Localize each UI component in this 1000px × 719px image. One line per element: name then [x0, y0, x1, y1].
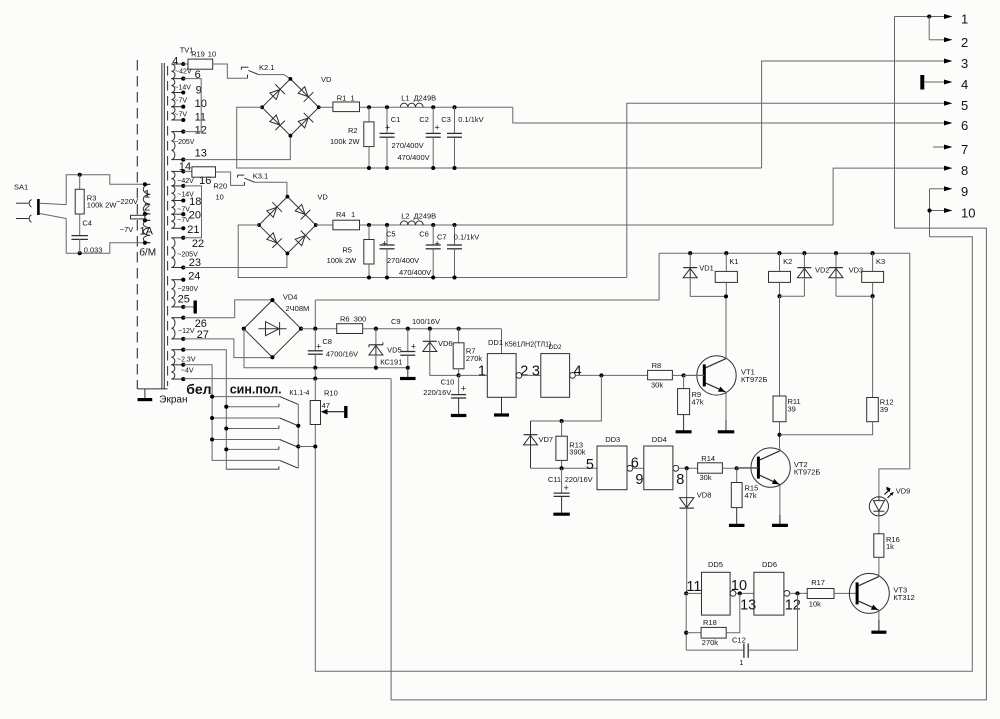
svg-text:КТ972Б: КТ972Б	[794, 467, 820, 476]
wire VD6 to DD1 input	[430, 352, 459, 376]
svg-text:K3.1: K3.1	[253, 171, 268, 180]
svg-text:K1: K1	[729, 257, 738, 266]
diode VD7	[530, 421, 532, 435]
svg-text:100k 2W: 100k 2W	[330, 137, 361, 146]
svg-text:C10: C10	[441, 378, 455, 387]
svg-text:Д249В: Д249В	[414, 211, 437, 220]
resistor R6	[337, 324, 363, 334]
inverter DD6	[754, 572, 784, 615]
chassis bar pin25	[193, 301, 196, 314]
svg-text:9: 9	[635, 472, 643, 488]
svg-text:11: 11	[195, 111, 206, 123]
output bus	[391, 17, 986, 700]
inverter DD3	[597, 446, 627, 490]
wire R17 to VT3 base	[834, 592, 857, 594]
DD6 output bubble	[784, 591, 790, 597]
wire to VD5	[375, 329, 377, 345]
svg-text:R17: R17	[811, 578, 825, 587]
terminal arrow 7	[944, 145, 953, 150]
secondary windings	[171, 64, 175, 79]
wire R16 to VT3 collector	[878, 557, 880, 576]
node K1/VT1	[724, 294, 728, 298]
DD3 output bubble	[627, 465, 633, 471]
wire to output 6	[513, 107, 947, 123]
svg-text:R19: R19	[191, 49, 205, 58]
svg-text:25: 25	[178, 294, 190, 306]
wire K2-VD2	[780, 295, 805, 297]
svg-text:9: 9	[961, 184, 968, 199]
dashed shield line	[136, 60, 138, 389]
svg-text:DD6: DD6	[762, 560, 777, 569]
wire bridge1 to R1	[319, 106, 333, 108]
svg-text:10k: 10k	[809, 599, 821, 608]
DD2 output bubble	[570, 373, 576, 379]
wire VD9 to R16	[878, 516, 880, 534]
svg-text:~7V: ~7V	[177, 217, 190, 224]
wire bridge2 to R4	[316, 224, 333, 226]
svg-text:К561ЛН2(ТЛ1): К561ЛН2(ТЛ1)	[505, 342, 552, 349]
capacitor C3	[447, 132, 462, 134]
svg-text:R14: R14	[701, 454, 715, 463]
wire minus1 to output 3	[762, 61, 947, 168]
ground R15	[736, 508, 738, 526]
wire DD5 to DD6	[736, 592, 754, 594]
wire VD1 to K1 bottom	[690, 278, 726, 297]
node C12	[795, 591, 799, 595]
node C4 bottom	[78, 251, 82, 255]
node R18 feedback	[738, 591, 742, 595]
wire pin27 to VD4 bottom	[183, 339, 272, 358]
svg-text:VD: VD	[317, 193, 328, 202]
svg-text:K2.1: K2.1	[259, 63, 274, 72]
svg-text:R18: R18	[703, 618, 717, 627]
svg-text:11: 11	[686, 579, 701, 595]
svg-text:VD2: VD2	[815, 266, 830, 275]
svg-text:C12: C12	[732, 635, 746, 644]
svg-text:+: +	[411, 341, 416, 351]
svg-text:син.пол.: син.пол.	[230, 382, 282, 396]
svg-text:10: 10	[216, 193, 224, 202]
jumper pins 2-1A	[144, 214, 146, 220]
node C7	[452, 223, 456, 227]
wire R20 to K3.1	[216, 172, 245, 185]
terminal arrow 6	[944, 121, 953, 126]
wire to R10	[314, 379, 316, 401]
svg-text:0.1/1kV: 0.1/1kV	[454, 233, 479, 242]
wire to terminal 10	[930, 210, 945, 212]
wire DD6 to R17	[790, 592, 808, 594]
svg-text:C5: C5	[386, 229, 396, 238]
svg-text:5: 5	[961, 98, 968, 113]
svg-text:4700/16V: 4700/16V	[326, 350, 358, 359]
wire VD4 plus to relay rail	[315, 253, 659, 300]
terminal arrow 10	[944, 208, 953, 213]
svg-text:+: +	[385, 123, 390, 133]
chassis bar terminal 4	[920, 75, 924, 90]
wire pin23 to bridge2	[183, 253, 287, 268]
relay contact K2.1	[247, 75, 249, 79]
switch throw contact	[226, 468, 279, 470]
svg-text:R8: R8	[652, 361, 662, 370]
svg-text:21: 21	[187, 224, 199, 236]
common rail	[183, 378, 391, 380]
ground R9	[683, 415, 685, 432]
svg-text:VD: VD	[321, 75, 332, 84]
capacitor C4	[71, 235, 88, 237]
wire to output 8	[833, 168, 947, 225]
capacitor C11	[554, 492, 570, 494]
capacitor C2	[426, 132, 441, 134]
svg-text:270/400V: 270/400V	[392, 141, 424, 150]
wire VT3 emitter	[878, 610, 880, 632]
diode VD3	[835, 253, 837, 267]
svg-text:1: 1	[144, 189, 150, 201]
node terminals 1-2	[927, 14, 931, 18]
wire to terminal 4	[925, 81, 944, 83]
wire DD2 output to R8	[575, 374, 647, 376]
wire plug top to riser	[40, 203, 66, 204]
ground C10	[458, 398, 460, 416]
svg-text:10: 10	[208, 49, 216, 58]
svg-text:2Ч08М: 2Ч08М	[286, 304, 310, 313]
svg-text:DD3: DD3	[605, 435, 620, 444]
9/10 loop to R10	[929, 189, 931, 237]
relay coil K1	[715, 271, 737, 282]
relay K2	[779, 253, 781, 271]
capacitor C5	[380, 244, 395, 246]
relay coil K3	[862, 271, 884, 282]
svg-text:5: 5	[586, 457, 594, 473]
svg-text:39: 39	[880, 405, 888, 414]
node C2	[431, 105, 435, 109]
capacitor C9	[400, 351, 415, 353]
long wire terminals 9-10 to R10	[315, 237, 972, 672]
node VD8	[685, 466, 689, 470]
inductor L1	[400, 103, 423, 107]
wire to DD5	[686, 592, 701, 594]
node VT1 base	[682, 373, 686, 377]
svg-text:~4V: ~4V	[181, 368, 194, 375]
switch arm K1.1	[212, 396, 280, 398]
resistor R9	[678, 389, 690, 415]
svg-text:C1: C1	[391, 115, 401, 124]
svg-text:8: 8	[961, 163, 968, 178]
relay K3	[872, 253, 874, 271]
ground VT2	[779, 515, 781, 525]
wire R18 to DD5 output	[726, 593, 740, 632]
terminal arrow 1	[944, 14, 953, 19]
svg-text:VD8: VD8	[697, 491, 712, 500]
wire C12 to DD6 output	[748, 593, 797, 650]
resistor R4	[333, 220, 360, 230]
node R18	[684, 631, 688, 635]
svg-text:47k: 47k	[692, 398, 704, 407]
svg-text:470/400V: 470/400V	[399, 268, 431, 277]
node terminals 9-10	[927, 208, 931, 212]
svg-text:16: 16	[199, 175, 211, 187]
inductor L2	[400, 221, 423, 225]
wire switch bus to R10 line	[298, 446, 315, 448]
ground common rail	[407, 368, 409, 379]
plus rail supply1	[360, 106, 513, 108]
ground VT1	[725, 420, 727, 432]
svg-text:+: +	[461, 384, 466, 394]
svg-text:VD9: VD9	[896, 486, 911, 495]
capacitor C7	[447, 244, 462, 246]
wire VT1 collector to K1	[725, 296, 727, 358]
svg-text:DD5: DD5	[708, 560, 723, 569]
wire pin13 to bridge1	[183, 136, 290, 160]
relay supply rail	[659, 252, 910, 254]
resistor R7	[453, 343, 464, 369]
wire to terminal 7	[933, 146, 944, 148]
wire to C11	[561, 468, 563, 493]
wire pin25	[183, 306, 193, 308]
svg-text:20: 20	[189, 210, 201, 222]
node R2 top	[367, 105, 371, 109]
wire VT2 emitter	[779, 485, 781, 526]
wire DD3 to DD4	[633, 467, 644, 469]
svg-text:270k: 270k	[466, 354, 483, 363]
transformer TV1 core	[161, 63, 163, 389]
wire feedback to VD7/R13	[531, 375, 602, 421]
wire VD3-K3	[836, 295, 873, 297]
wire to R3	[79, 175, 81, 190]
svg-text:+: +	[435, 123, 440, 133]
svg-text:3: 3	[532, 363, 540, 379]
common rail under C8	[315, 367, 408, 369]
svg-text:270/400V: 270/400V	[387, 256, 419, 265]
DD1 output bubble	[516, 373, 522, 379]
resistor R15	[731, 483, 742, 508]
svg-text:1: 1	[961, 12, 968, 27]
svg-text:бел: бел	[186, 381, 211, 397]
svg-text:13: 13	[195, 148, 207, 160]
wire VD4 minus to common	[244, 329, 315, 368]
plus rail supply2 to output8 riser	[360, 224, 834, 226]
resistor R5	[364, 240, 374, 265]
svg-text:~2.3V: ~2.3V	[177, 356, 196, 363]
ground C11	[561, 496, 563, 514]
wire to C8	[314, 329, 316, 351]
svg-text:~7V: ~7V	[174, 112, 187, 119]
svg-text:270k: 270k	[702, 638, 719, 647]
wire VD8 to DD5 input	[686, 508, 688, 593]
svg-text:1: 1	[351, 93, 355, 102]
terminal arrow 2	[944, 37, 953, 42]
VD9 emission arrows	[885, 490, 890, 495]
wire to C10	[458, 375, 460, 394]
transistor VT1	[697, 356, 736, 395]
capacitor C12	[686, 649, 744, 651]
jumper bar	[131, 215, 145, 219]
switch throw contact	[226, 406, 279, 408]
diode VD2	[803, 253, 805, 267]
switch throw contact	[226, 428, 279, 430]
bridge rectifier VD (lower)	[259, 197, 287, 225]
svg-text:~7V: ~7V	[177, 206, 190, 213]
primary winding 1-2	[143, 184, 150, 214]
svg-text:~7V: ~7V	[174, 98, 187, 105]
terminal arrow 3	[944, 59, 953, 64]
wire mains bottom to pin b/M	[66, 219, 145, 254]
capacitor C10	[451, 394, 466, 396]
svg-text:47: 47	[322, 401, 330, 410]
switch blade	[280, 397, 299, 405]
svg-text:~205V: ~205V	[177, 252, 198, 259]
svg-text:КС191: КС191	[380, 358, 402, 367]
svg-text:100k 2W: 100k 2W	[87, 200, 118, 209]
svg-text:~42V: ~42V	[177, 178, 194, 185]
resistor R8	[648, 370, 673, 379]
capacitor C6	[426, 244, 441, 246]
resistor R3	[75, 189, 84, 214]
resistor R16	[874, 534, 884, 558]
svg-text:б/М: б/М	[139, 246, 156, 258]
svg-text:6: 6	[195, 69, 201, 81]
svg-text:4: 4	[172, 55, 178, 67]
svg-text:DD1: DD1	[488, 338, 503, 347]
terminal arrow 4	[944, 80, 953, 85]
resistor R19	[188, 59, 213, 69]
svg-text:~205V: ~205V	[174, 139, 195, 146]
switch arm K1.3	[212, 439, 280, 441]
wire DD1 to DD2	[522, 374, 541, 376]
svg-text:0.033: 0.033	[84, 246, 103, 255]
wire to R13	[561, 421, 563, 436]
primary winding 1A-b/M	[143, 220, 150, 243]
node VT2 collector	[777, 433, 781, 437]
svg-text:~12V: ~12V	[178, 328, 195, 335]
switch common bus	[297, 404, 299, 468]
svg-text:1k: 1k	[886, 542, 894, 551]
svg-text:SA1: SA1	[14, 183, 28, 192]
switch blade	[280, 418, 299, 426]
wire DD4 to R14	[679, 467, 698, 469]
wire to C9	[407, 329, 409, 352]
node DD5 input	[684, 591, 688, 595]
svg-text:VD6: VD6	[438, 339, 453, 348]
svg-text:3: 3	[961, 56, 968, 71]
svg-text:+: +	[564, 483, 569, 493]
wire to terminal 2	[929, 39, 944, 41]
svg-text:8: 8	[676, 472, 684, 488]
svg-text:2: 2	[961, 35, 968, 50]
sin.pol bus	[183, 350, 279, 470]
svg-text:+: +	[382, 239, 387, 249]
bus pin11 R18 C12	[685, 593, 687, 650]
svg-text:~14V: ~14V	[177, 192, 194, 199]
svg-text:R2: R2	[348, 126, 358, 135]
svg-text:C9: C9	[391, 317, 401, 326]
switch arm K1.2	[212, 417, 280, 419]
svg-text:30k: 30k	[651, 381, 663, 390]
SA1 mains plug	[16, 202, 29, 204]
wire to R7	[458, 329, 460, 343]
svg-text:L2: L2	[401, 211, 409, 220]
svg-text:КТ972Б: КТ972Б	[741, 375, 767, 384]
wire R19 to K2.1	[213, 64, 248, 78]
node C6	[431, 223, 435, 227]
svg-text:4: 4	[961, 77, 968, 92]
terminal arrow 5	[944, 101, 953, 106]
svg-text:6: 6	[631, 456, 639, 472]
inverter DD4	[644, 446, 673, 490]
node R3 top	[78, 173, 82, 177]
diode VD6	[423, 340, 437, 342]
wire R3 to C4	[79, 214, 81, 236]
node common rail end	[406, 366, 410, 370]
svg-text:1: 1	[351, 210, 355, 219]
svg-text:12: 12	[785, 597, 801, 613]
DD5 output bubble	[730, 591, 736, 597]
svg-text:К1.1-4: К1.1-4	[289, 390, 309, 397]
svg-text:~42V: ~42V	[175, 69, 192, 76]
svg-text:470/400V: 470/400V	[398, 153, 430, 162]
terminal arrow 9	[944, 186, 953, 191]
svg-text:1: 1	[739, 658, 743, 667]
wire to terminal 1	[895, 16, 945, 18]
svg-text:K2: K2	[783, 257, 792, 266]
zener VD5	[369, 344, 383, 346]
svg-text:~14V: ~14V	[174, 84, 191, 91]
terminal arrow 8	[944, 166, 953, 171]
wire R12 to VT2 collector	[780, 422, 873, 435]
svg-text:R1: R1	[337, 93, 347, 102]
resistor R20	[192, 167, 216, 177]
resistor R1	[333, 102, 360, 112]
svg-text:C6: C6	[419, 229, 429, 238]
node R13 top	[560, 419, 564, 423]
svg-text:100k 2W: 100k 2W	[327, 256, 358, 265]
rail +9V	[301, 328, 337, 330]
svg-text:~7V: ~7V	[120, 225, 134, 234]
bridge rectifier VD4	[244, 300, 273, 329]
svg-text:47k: 47k	[745, 491, 757, 500]
wire VD7/R13 to DD3 input	[531, 467, 598, 469]
wire pin6 to pin12	[183, 79, 201, 132]
wire relay rail to VD9	[879, 253, 910, 497]
svg-text:220/16V: 220/16V	[423, 388, 451, 397]
wire VD4 plus down	[314, 300, 316, 329]
svg-text:2: 2	[520, 363, 528, 379]
capacitor C8	[308, 350, 323, 352]
wire to terminal 2	[928, 17, 930, 40]
svg-text:VD5: VD5	[387, 346, 402, 355]
svg-text:Д249В: Д249В	[414, 94, 437, 103]
wire to R15	[736, 468, 738, 482]
wire to common	[314, 368, 316, 379]
wire K2 to R11	[779, 296, 781, 396]
wire plug bottom	[40, 214, 66, 219]
resistor R13	[556, 436, 567, 460]
svg-text:R20: R20	[213, 182, 227, 191]
potentiometer R10	[310, 401, 320, 425]
inverter DD2	[541, 354, 570, 398]
resistor R12	[867, 398, 879, 422]
svg-text:10: 10	[961, 206, 975, 221]
bridge rectifier VD (upper)	[262, 79, 290, 107]
node C1	[385, 105, 389, 109]
node C11	[560, 466, 564, 470]
svg-text:L1: L1	[401, 94, 409, 103]
switch blade	[280, 460, 299, 468]
svg-text:R4: R4	[336, 210, 346, 219]
svg-text:K3: K3	[876, 257, 885, 266]
svg-text:1А: 1А	[140, 226, 154, 238]
wire K3 to R12	[872, 296, 874, 397]
node R10 top	[313, 377, 317, 381]
